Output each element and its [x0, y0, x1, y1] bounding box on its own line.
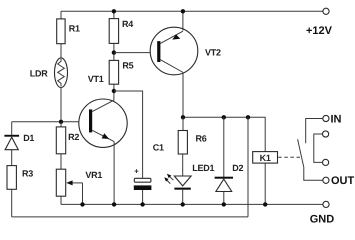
resistor R2: [60, 122, 62, 127]
resistor R5: [109, 60, 118, 84]
wire collector mid rail: [183, 117, 265, 151]
potentiometer VR1: [56, 169, 65, 196]
diode D2: [215, 177, 233, 179]
wire VT1 collector up: [113, 84, 115, 100]
node R4 R5 junction: [112, 50, 116, 54]
svg-text:VT1: VT1: [88, 74, 104, 84]
wire VR1 bottom lead: [60, 196, 62, 204]
svg-text:IN: IN: [331, 113, 342, 125]
wire GND rail: [61, 203, 323, 205]
svg-text:GND: GND: [310, 214, 335, 226]
LED LED1: [174, 176, 191, 186]
wire R1 top lead: [60, 11, 62, 19]
wire VR1 wiper: [69, 182, 83, 184]
svg-text:OUT: OUT: [331, 175, 355, 187]
svg-text:R5: R5: [122, 61, 133, 71]
wire R1 to LDR: [60, 44, 62, 59]
wire VT1 base rail: [12, 121, 89, 123]
wire R2 to VR1: [60, 154, 62, 169]
wire to VT2 base: [114, 52, 157, 54]
wire LDR to base node: [60, 87, 62, 121]
transistor VT1: [79, 99, 127, 147]
svg-text:R1: R1: [69, 23, 80, 33]
wire D1 top lead: [11, 122, 13, 135]
LED1 light arrows: [168, 175, 173, 180]
svg-text:R4: R4: [122, 19, 133, 29]
wire OUT contact: [304, 167, 323, 180]
diode D1: [4, 135, 19, 137]
svg-text:R3: R3: [22, 169, 33, 179]
svg-text:+12V: +12V: [306, 25, 333, 37]
terminal IN: [323, 115, 329, 121]
resistor R6: [182, 117, 184, 130]
terminal +12V: [323, 8, 329, 14]
wire VT1 collector to C1: [114, 91, 143, 178]
wire feedback drop: [247, 117, 249, 217]
svg-text:VR1: VR1: [85, 170, 102, 180]
svg-text:LDR: LDR: [30, 68, 48, 78]
wire D1 to R3: [11, 150, 13, 166]
wire LED1 cathode lead: [182, 190, 184, 205]
relay contact lever: [298, 139, 304, 167]
wire C1 bottom lead: [142, 190, 144, 204]
node VT1 collector / R5: [112, 89, 116, 93]
capacitor C1: [135, 170, 139, 172]
wire feedback bottom rail: [12, 216, 248, 218]
svg-text:R6: R6: [196, 134, 207, 144]
wire IN contact: [306, 119, 323, 144]
wire middle contact bracket: [314, 134, 323, 162]
wire D2 bottom lead: [223, 192, 225, 205]
node base junction: [59, 120, 63, 124]
svg-text:D1: D1: [23, 133, 34, 143]
terminal contact mid upper: [323, 131, 329, 137]
wire VT1 emitter down: [113, 142, 115, 205]
svg-text:C1: C1: [153, 142, 164, 152]
wire K1 bottom lead: [264, 163, 266, 204]
svg-text:VT2: VT2: [205, 47, 221, 57]
svg-text:D2: D2: [232, 163, 243, 173]
transistor VT2: [150, 27, 198, 75]
dashed link K1 to contacts: [278, 156, 300, 158]
wire VT2 emitter up: [182, 11, 184, 30]
svg-text:R2: R2: [68, 132, 79, 142]
svg-text:LED1: LED1: [192, 163, 214, 173]
LDR: [55, 58, 68, 88]
wire top +12V rail: [61, 10, 323, 12]
resistor R4: [113, 11, 115, 18]
terminal contact mid lower: [323, 159, 329, 165]
svg-text:K1: K1: [260, 153, 271, 163]
wire R3 to feedback rail: [11, 189, 13, 217]
wire R4 to R5: [113, 43, 115, 60]
resistor R1: [57, 19, 65, 44]
wire R6 to LED1: [182, 154, 184, 176]
wire D2 top lead: [223, 117, 225, 177]
terminal GND: [323, 201, 329, 207]
terminal OUT: [323, 177, 329, 183]
resistor R3: [7, 166, 16, 190]
relay coil K1: [253, 152, 278, 164]
wire VT2 collector down: [182, 73, 184, 118]
